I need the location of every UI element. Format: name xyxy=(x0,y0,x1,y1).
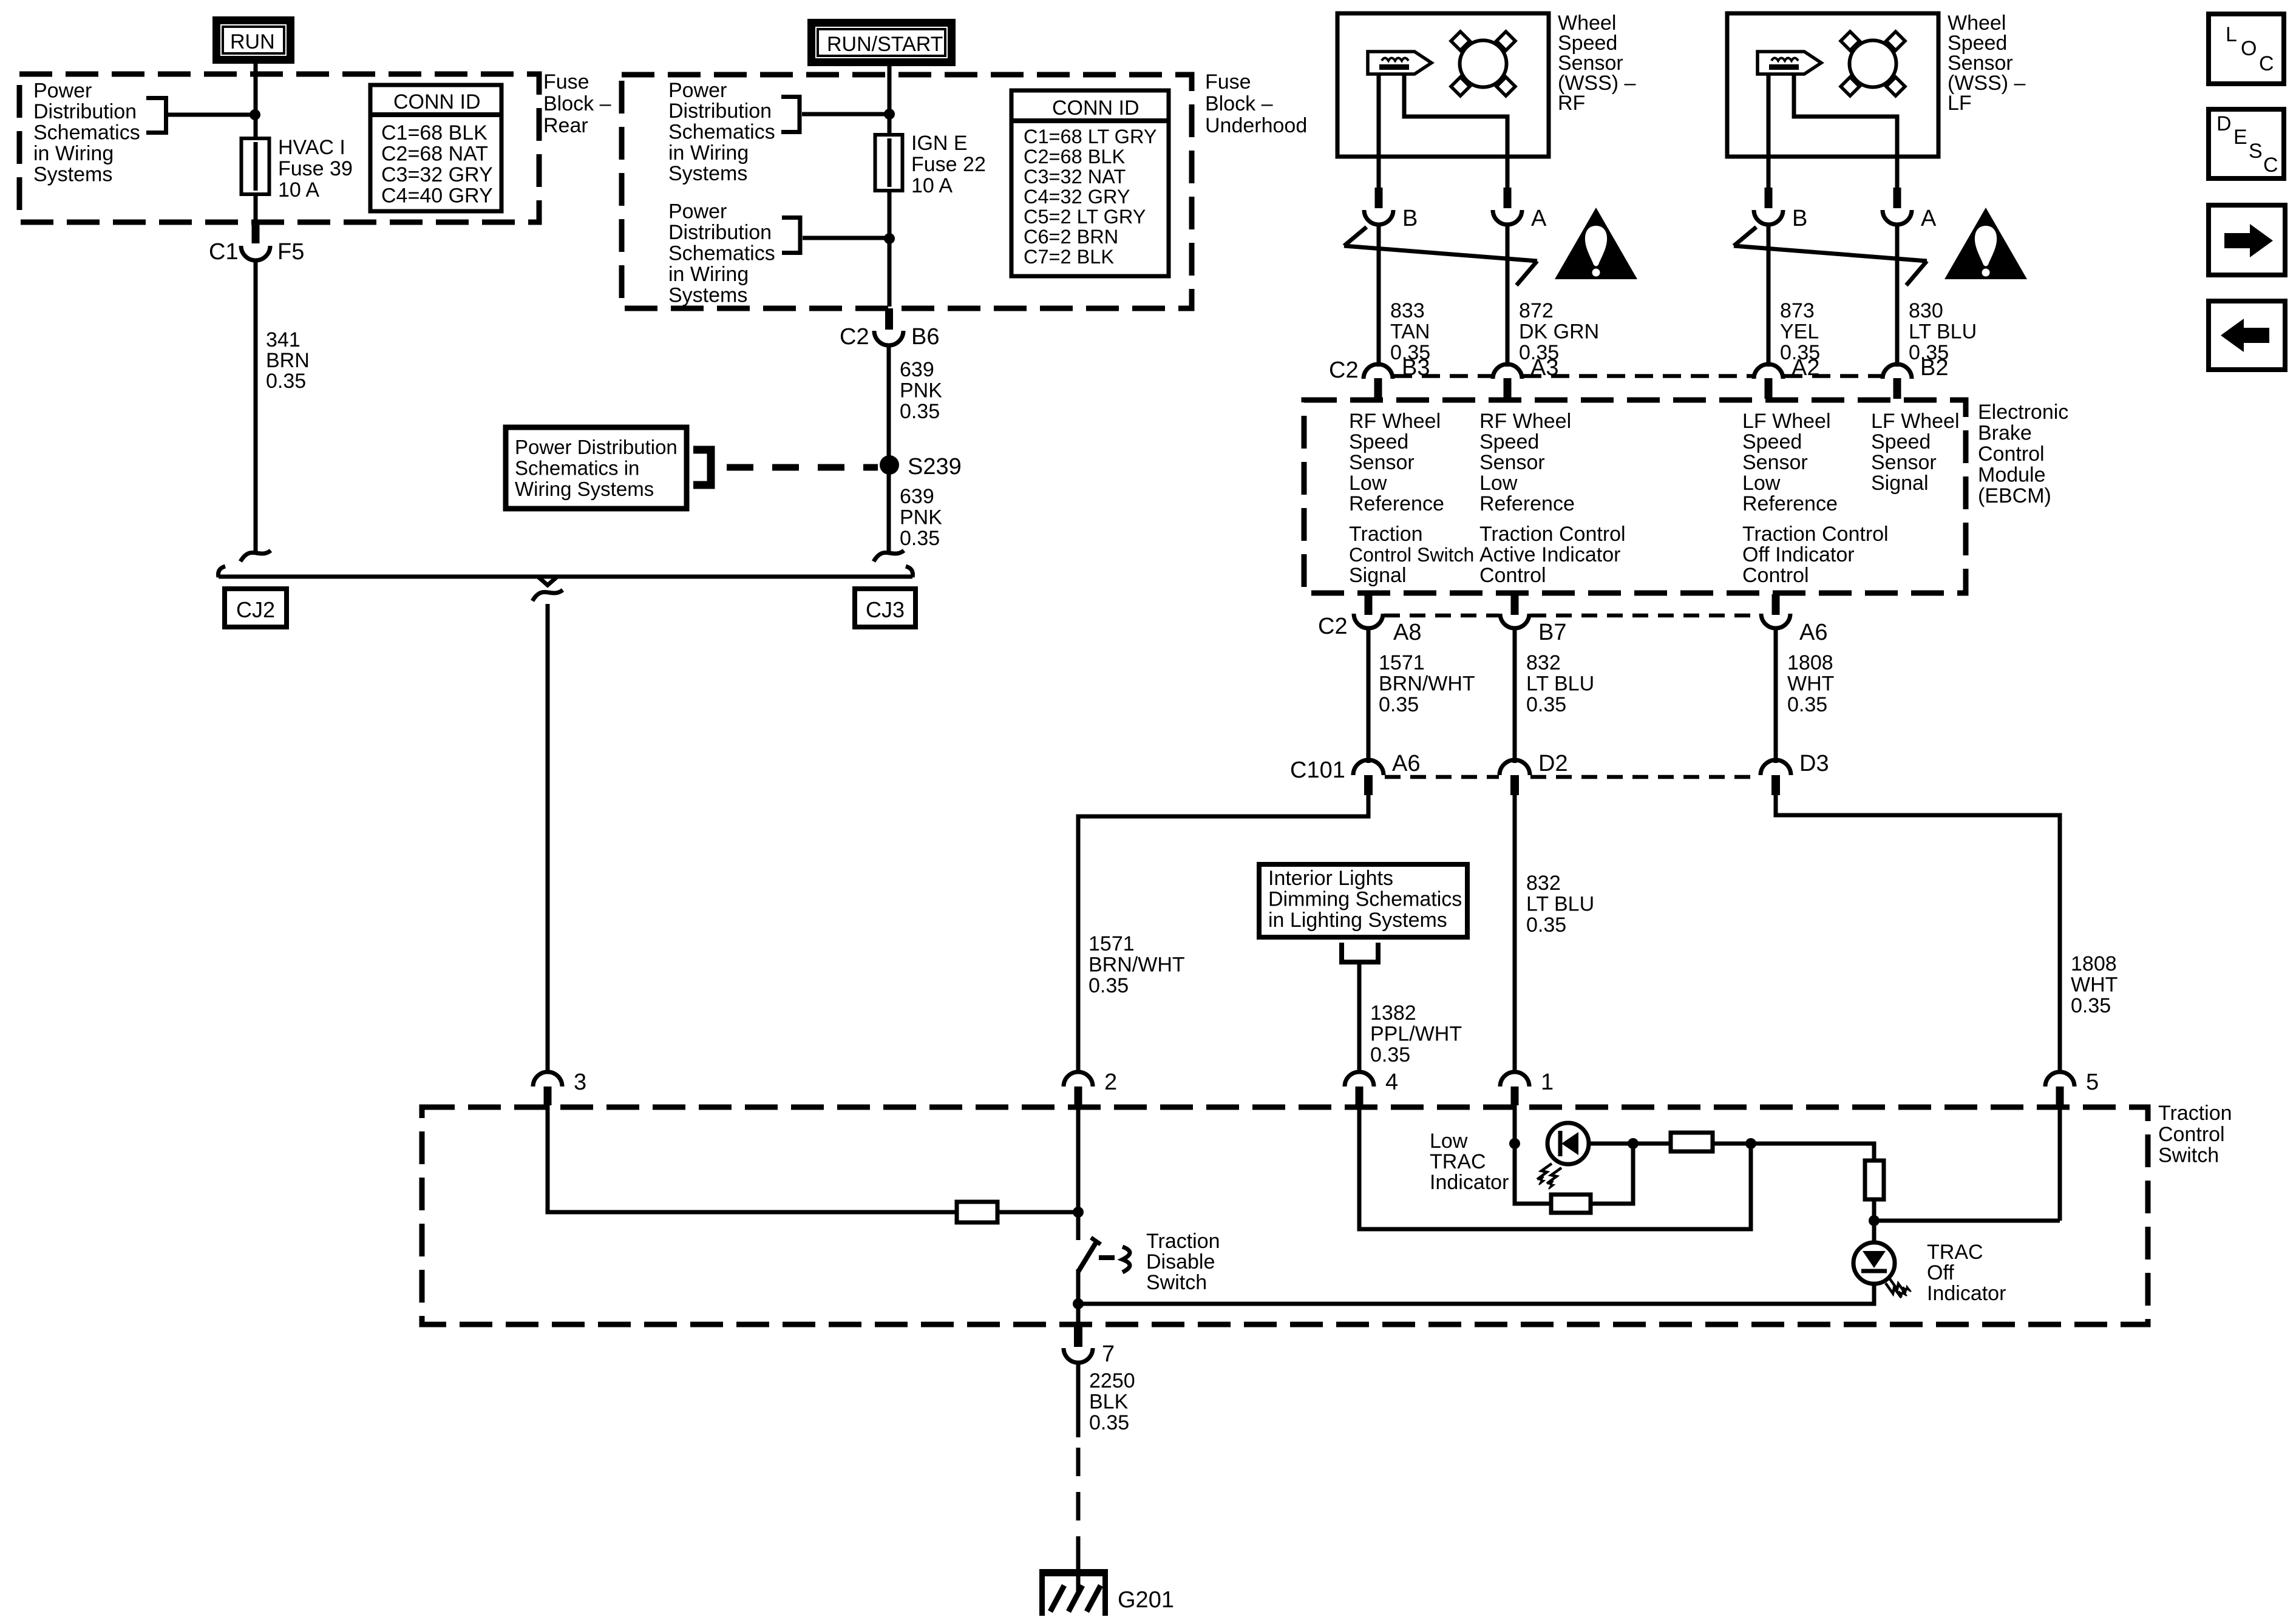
svg-text:B: B xyxy=(1792,206,1807,231)
label Fuse Block - Underhood xyxy=(1205,70,1307,137)
svg-text:0.35: 0.35 xyxy=(1379,693,1419,716)
svg-text:BLK: BLK xyxy=(1089,1391,1129,1414)
svg-text:Fuse 39: Fuse 39 xyxy=(278,157,353,180)
svg-text:C4=32 GRY: C4=32 GRY xyxy=(1024,186,1130,208)
dashed reference link to S239 xyxy=(727,464,878,471)
bracket below interior lights box xyxy=(1342,943,1378,962)
wire RF A down to EBCM xyxy=(1506,225,1510,367)
connector pin A (RF) xyxy=(1493,188,1547,231)
connector pin B2 (EBCM top) xyxy=(1883,355,1948,399)
svg-text:(EBCM): (EBCM) xyxy=(1978,484,2051,507)
svg-text:A3: A3 xyxy=(1530,355,1558,381)
wire D3 to switch pin 5 xyxy=(1776,795,2060,1073)
connector pin D2 (C101) xyxy=(1500,751,1568,795)
DESC nav box xyxy=(2209,109,2284,178)
fuse block underhood dashed box xyxy=(622,75,1192,308)
svg-text:CONN ID: CONN ID xyxy=(393,90,481,114)
svg-text:C1=68 LT GRY: C1=68 LT GRY xyxy=(1024,126,1157,147)
svg-text:BRN: BRN xyxy=(266,349,310,372)
warning triangle LF xyxy=(1944,208,2027,279)
svg-text:D3: D3 xyxy=(1799,751,1829,776)
junction box CJ3 xyxy=(855,589,915,627)
svg-text:CONN ID: CONN ID xyxy=(1052,97,1140,120)
svg-text:Sensor: Sensor xyxy=(1871,451,1937,474)
svg-text:0.35: 0.35 xyxy=(1526,914,1566,937)
wire resistor 3 to junction C xyxy=(1713,1142,1751,1146)
EBCM pin function text traction control switch signal (col1) xyxy=(1349,523,1474,587)
label Traction Disable Switch xyxy=(1146,1230,1220,1294)
wire W3 bus to switch pin 3 xyxy=(546,604,550,1073)
svg-text:E: E xyxy=(2233,126,2247,149)
EBCM pin function text traction control active indicator control (col2) xyxy=(1479,523,1626,587)
label Fuse Block - Rear xyxy=(543,70,611,137)
svg-text:RF Wheel: RF Wheel xyxy=(1479,410,1571,433)
svg-text:TRAC: TRAC xyxy=(1927,1241,1983,1264)
bracket power distribution 1 (underhood) xyxy=(781,97,800,132)
wire LF B down to EBCM xyxy=(1767,225,1771,367)
svg-text:Control: Control xyxy=(2158,1123,2225,1146)
vertical resistor trac off xyxy=(1865,1161,1884,1199)
svg-text:0.35: 0.35 xyxy=(900,400,940,423)
svg-text:Speed: Speed xyxy=(1871,430,1931,453)
resistor in indicator rail xyxy=(1671,1133,1713,1151)
wire LF B to connector xyxy=(1767,157,1771,189)
svg-text:Power: Power xyxy=(668,200,727,223)
connector pin A3 (EBCM top) xyxy=(1493,355,1558,399)
wire 2250 BLK 0.35 xyxy=(1078,1363,1135,1437)
wire 1382 PPL/WHT to pin 4 xyxy=(1357,962,1362,1073)
svg-text:Control: Control xyxy=(1742,564,1809,587)
svg-text:B2: B2 xyxy=(1920,355,1948,381)
connector pin A (LF) xyxy=(1883,188,1937,231)
svg-text:0.35: 0.35 xyxy=(1526,693,1566,716)
wire junction C to pin 4 leg xyxy=(1359,1105,1751,1229)
node junction 1 underhood xyxy=(884,109,895,120)
wire break symbol W1 xyxy=(240,551,271,561)
svg-text:LF Wheel: LF Wheel xyxy=(1871,410,1960,433)
svg-text:C2: C2 xyxy=(1329,358,1359,383)
svg-text:BRN/WHT: BRN/WHT xyxy=(1379,673,1475,696)
svg-text:0.35: 0.35 xyxy=(1089,974,1129,997)
connector pin 1 (switch) xyxy=(1500,1070,1554,1105)
svg-text:Speed: Speed xyxy=(1479,430,1539,453)
warning triangle RF xyxy=(1555,208,1637,279)
svg-text:Systems: Systems xyxy=(668,284,747,307)
text Power Distribution Schematics in Wiring Systems (underhood upper) xyxy=(668,79,775,185)
svg-text:A6: A6 xyxy=(1799,620,1827,645)
wire dashed to ground xyxy=(1076,1448,1081,1554)
svg-text:RF Wheel: RF Wheel xyxy=(1349,410,1441,433)
fuse block rear dashed box xyxy=(19,74,539,222)
svg-text:Speed: Speed xyxy=(1349,430,1408,453)
wire 341 BRN 0.35 xyxy=(254,260,258,551)
wire to ground symbol xyxy=(1076,1551,1081,1594)
wire RF A to connector xyxy=(1506,157,1510,189)
svg-text:Underhood: Underhood xyxy=(1205,114,1307,137)
svg-text:832: 832 xyxy=(1526,872,1561,895)
svg-text:C3=32 NAT: C3=32 NAT xyxy=(1024,166,1126,188)
connector C1 F5 xyxy=(209,222,304,265)
svg-text:C6=2 BRN: C6=2 BRN xyxy=(1024,226,1118,248)
EBCM pin function text RF wheel low reference (col1) xyxy=(1349,410,1444,515)
svg-text:Power: Power xyxy=(668,79,727,102)
LOC nav box xyxy=(2209,14,2284,84)
svg-text:C: C xyxy=(2259,52,2274,75)
svg-text:Reference: Reference xyxy=(1479,492,1575,515)
label Traction Control Switch xyxy=(2158,1102,2232,1167)
power feed box RUN xyxy=(212,16,294,64)
fuse HVAC I Fuse 39 10 A xyxy=(242,136,353,202)
connector pin A2 (EBCM top) xyxy=(1754,355,1819,399)
svg-text:A: A xyxy=(1531,206,1547,231)
wire label 872 DK GRN 0.35 xyxy=(1519,299,1599,364)
text Power Distribution Schematics in Wiring Systems (rear) xyxy=(33,80,140,186)
svg-text:Distribution: Distribution xyxy=(33,100,137,123)
wire D2 to switch pin 1 xyxy=(1513,795,1517,1073)
svg-text:Electronic: Electronic xyxy=(1978,401,2068,424)
wire label 830 LT BLU 0.35 xyxy=(1909,299,1977,364)
label Wheel Speed Sensor (WSS) - LF xyxy=(1948,12,2026,115)
svg-text:Traction: Traction xyxy=(1349,523,1423,546)
resistor in switch signal path xyxy=(957,1202,997,1222)
svg-text:Fuse: Fuse xyxy=(543,70,589,93)
node junction D xyxy=(1869,1215,1880,1226)
wire break torn symbol LF xyxy=(1734,227,1927,285)
junction box CJ2 xyxy=(225,589,287,627)
svg-text:C101: C101 xyxy=(1290,758,1345,783)
connector pin B (LF) xyxy=(1754,188,1807,231)
svg-text:1571: 1571 xyxy=(1089,932,1135,955)
svg-text:Power: Power xyxy=(33,80,92,103)
wire label 832 LT BLU lower xyxy=(1526,872,1594,937)
svg-text:0.35: 0.35 xyxy=(2071,994,2111,1017)
wire 639 PNK upper xyxy=(887,345,891,551)
svg-text:Low: Low xyxy=(1479,472,1518,495)
svg-text:Disable: Disable xyxy=(1146,1250,1215,1273)
svg-text:YEL: YEL xyxy=(1780,320,1819,344)
svg-text:Indicator: Indicator xyxy=(1430,1171,1509,1194)
right arrow nav box xyxy=(2209,205,2285,275)
svg-text:C5=2 LT GRY: C5=2 LT GRY xyxy=(1024,206,1146,228)
wheel speed sensor LF box xyxy=(1727,13,1938,157)
EBCM dashed box xyxy=(1304,400,1966,593)
wire RUN/START to fuse 22 xyxy=(888,66,892,137)
bracket for power distribution box at S239 xyxy=(693,450,711,485)
svg-text:Distribution: Distribution xyxy=(668,221,772,244)
power distribution schematics box (solid) xyxy=(506,427,687,509)
svg-text:C2=68 NAT: C2=68 NAT xyxy=(381,143,488,166)
svg-text:Schematics: Schematics xyxy=(668,242,775,265)
wire label 1571 BRN/WHT lower xyxy=(1089,932,1185,997)
power feed box RUN/START xyxy=(807,19,956,66)
left arrow nav box xyxy=(2209,301,2285,370)
EBCM pin function text LF wheel low reference (col3) xyxy=(1742,410,1838,515)
wire junction B to resistor 3 xyxy=(1633,1142,1671,1146)
WSS RF internal wires xyxy=(1377,74,1381,157)
wire LF A down to EBCM xyxy=(1895,225,1900,367)
svg-text:O: O xyxy=(2241,37,2257,60)
svg-text:C1: C1 xyxy=(209,239,239,265)
svg-text:LT BLU: LT BLU xyxy=(1526,673,1594,696)
LED trac off indicator xyxy=(1853,1242,1911,1298)
interior lights dimming box xyxy=(1259,864,1467,937)
svg-text:Traction Control: Traction Control xyxy=(1742,523,1889,546)
connector row line EBCM top xyxy=(1394,374,1881,378)
svg-text:CJ2: CJ2 xyxy=(236,597,275,622)
svg-text:PPL/WHT: PPL/WHT xyxy=(1370,1023,1462,1046)
WSS LF tone ring icon xyxy=(1841,32,1905,96)
wire branch 1 to bracket xyxy=(802,112,888,117)
svg-text:5: 5 xyxy=(2086,1070,2099,1095)
wire 1808 WHT upper xyxy=(1774,627,1778,763)
connector C101 A6 xyxy=(1290,751,1420,795)
svg-text:Dimming Schematics: Dimming Schematics xyxy=(1268,888,1462,911)
svg-text:4: 4 xyxy=(1385,1070,1398,1095)
svg-text:LT BLU: LT BLU xyxy=(1909,320,1977,344)
svg-text:IGN E: IGN E xyxy=(911,132,968,155)
svg-text:A8: A8 xyxy=(1393,620,1421,645)
svg-text:Interior Lights: Interior Lights xyxy=(1268,867,1393,890)
svg-text:C: C xyxy=(2263,154,2278,177)
wire resistor to junction xyxy=(997,1210,1078,1215)
connector pin 2 (switch) xyxy=(1064,1070,1117,1105)
svg-text:A: A xyxy=(1921,206,1937,231)
switch actuator dashed link xyxy=(1099,1255,1116,1260)
svg-text:LF Wheel: LF Wheel xyxy=(1742,410,1831,433)
svg-text:C7=2 BLK: C7=2 BLK xyxy=(1024,246,1114,268)
svg-text:RUN: RUN xyxy=(230,30,275,53)
connector pin 3 (switch) xyxy=(533,1070,586,1105)
wire A6 to switch pin 2 xyxy=(1078,795,1368,1073)
wire RUN to fuse 39 xyxy=(254,64,258,140)
svg-text:Block –: Block – xyxy=(1205,92,1273,115)
CONN ID table (underhood) xyxy=(1011,90,1169,276)
WSS LF internal wires xyxy=(1767,74,1771,157)
svg-text:639: 639 xyxy=(900,485,934,508)
label Wheel Speed Sensor (WSS) - RF xyxy=(1558,12,1636,115)
svg-text:Switch: Switch xyxy=(1146,1271,1207,1294)
svg-text:Distribution: Distribution xyxy=(668,100,772,123)
svg-text:Systems: Systems xyxy=(33,163,112,186)
svg-text:Fuse 22: Fuse 22 xyxy=(911,153,986,176)
svg-text:Module: Module xyxy=(1978,464,2046,487)
svg-text:WHT: WHT xyxy=(2071,974,2118,997)
node junction 2 underhood xyxy=(884,233,895,244)
wire label 833 TAN 0.35 xyxy=(1390,299,1430,364)
wire fuse39 to connector C1 xyxy=(254,194,258,223)
traction control switch dashed box xyxy=(422,1107,2148,1324)
label Low TRAC Indicator xyxy=(1430,1130,1509,1194)
svg-text:2250: 2250 xyxy=(1089,1369,1135,1392)
svg-text:S: S xyxy=(2249,140,2263,163)
wire label 1808 WHT lower xyxy=(2071,952,2118,1017)
wire trac off LED to ground junction xyxy=(1078,1284,1874,1304)
bus brace CJ2/CJ3 xyxy=(218,566,912,585)
bracket power distribution 2 (underhood) xyxy=(782,218,800,253)
svg-text:RF: RF xyxy=(1558,92,1585,115)
svg-text:C2: C2 xyxy=(840,324,869,350)
svg-text:Speed: Speed xyxy=(1742,430,1802,453)
svg-text:DK GRN: DK GRN xyxy=(1519,320,1599,344)
svg-text:in Wiring: in Wiring xyxy=(668,141,749,164)
svg-text:1808: 1808 xyxy=(1787,651,1833,674)
svg-text:Off Indicator: Off Indicator xyxy=(1742,543,1855,566)
svg-text:341: 341 xyxy=(266,328,301,351)
wire 832 LT BLU upper xyxy=(1513,627,1517,763)
svg-text:WHT: WHT xyxy=(1787,673,1834,696)
CONN ID table (rear) xyxy=(370,85,501,211)
svg-text:Schematics: Schematics xyxy=(668,121,775,144)
wire pin 2 internal drop xyxy=(1076,1105,1081,1240)
wire LED to junction B xyxy=(1589,1142,1633,1146)
svg-text:Signal: Signal xyxy=(1871,472,1929,495)
svg-text:Schematics in: Schematics in xyxy=(515,457,639,480)
wire blade to bottom junction xyxy=(1076,1269,1081,1324)
label TRAC Off Indicator xyxy=(1927,1241,2006,1305)
svg-text:Control: Control xyxy=(1479,564,1546,587)
label Electronic Brake Control Module (EBCM) xyxy=(1978,401,2068,507)
fuse IGN E Fuse 22 10 A xyxy=(875,132,986,197)
svg-text:0.35: 0.35 xyxy=(1089,1411,1129,1434)
wire branch to power distribution bracket xyxy=(168,113,254,117)
svg-text:1382: 1382 xyxy=(1370,1002,1416,1025)
WSS LF probe icon xyxy=(1758,52,1821,74)
svg-text:Brake: Brake xyxy=(1978,422,2032,445)
wire break below bus xyxy=(532,590,563,601)
svg-text:639: 639 xyxy=(900,358,934,381)
svg-text:Sensor: Sensor xyxy=(1349,451,1415,474)
connector pin D3 (C101) xyxy=(1761,751,1829,795)
connector C2 B6 xyxy=(840,308,939,350)
connector pin 7 (switch bottom) xyxy=(1064,1326,1115,1367)
wire branch 2 to bracket xyxy=(803,236,888,240)
svg-text:Traction: Traction xyxy=(2158,1102,2232,1125)
node junction pin2/resistor xyxy=(1073,1207,1084,1218)
svg-text:B: B xyxy=(1402,206,1418,231)
svg-text:LF: LF xyxy=(1948,92,1972,115)
connector pin A6 (EBCM bottom) xyxy=(1761,594,1827,645)
svg-text:Signal: Signal xyxy=(1349,564,1407,587)
svg-text:TRAC: TRAC xyxy=(1430,1150,1486,1173)
svg-text:F5: F5 xyxy=(277,239,304,265)
svg-text:Off: Off xyxy=(1927,1261,1954,1284)
node junction C xyxy=(1745,1138,1756,1149)
wire break symbol W2 xyxy=(874,551,904,561)
node junction A low trac xyxy=(1509,1138,1520,1149)
svg-text:LT BLU: LT BLU xyxy=(1526,893,1594,916)
svg-text:B7: B7 xyxy=(1538,620,1566,645)
svg-text:Sensor: Sensor xyxy=(1479,451,1545,474)
svg-text:A6: A6 xyxy=(1392,751,1420,776)
svg-text:Traction: Traction xyxy=(1146,1230,1220,1253)
connector pin B (RF) xyxy=(1364,188,1418,231)
svg-text:D: D xyxy=(2216,112,2232,135)
svg-text:Control: Control xyxy=(1978,442,2045,466)
svg-text:0.35: 0.35 xyxy=(1787,693,1827,716)
svg-text:PNK: PNK xyxy=(900,506,942,529)
svg-text:Switch: Switch xyxy=(2158,1144,2219,1167)
wire LF A to connector xyxy=(1895,157,1900,189)
svg-text:Reference: Reference xyxy=(1349,492,1444,515)
svg-text:1571: 1571 xyxy=(1379,651,1425,674)
svg-text:832: 832 xyxy=(1526,651,1561,674)
svg-text:Active Indicator: Active Indicator xyxy=(1479,543,1620,566)
text Power Distribution Schematics in Wiring Systems (underhood lower) xyxy=(668,200,775,307)
svg-text:B6: B6 xyxy=(911,324,939,350)
wire break torn symbol RF xyxy=(1344,227,1537,285)
connector pin B7 (EBCM bottom) xyxy=(1500,594,1566,645)
svg-text:830: 830 xyxy=(1909,299,1943,322)
svg-text:Wiring Systems: Wiring Systems xyxy=(515,478,654,500)
svg-text:10 A: 10 A xyxy=(911,174,953,197)
svg-text:Low: Low xyxy=(1742,472,1781,495)
svg-text:C2=68 BLK: C2=68 BLK xyxy=(1024,146,1125,168)
svg-text:Low: Low xyxy=(1430,1130,1468,1153)
connector C2 B3 (EBCM top) xyxy=(1329,355,1430,399)
svg-text:Schematics: Schematics xyxy=(33,121,140,144)
svg-text:7: 7 xyxy=(1102,1341,1115,1367)
svg-text:Rear: Rear xyxy=(543,114,588,137)
svg-text:C1=68 BLK: C1=68 BLK xyxy=(381,121,487,144)
svg-text:Power Distribution: Power Distribution xyxy=(515,436,678,458)
svg-text:C4=40 GRY: C4=40 GRY xyxy=(381,185,493,208)
svg-text:Sensor: Sensor xyxy=(1742,451,1808,474)
bracket for power distribution reference (rear) xyxy=(146,98,166,133)
svg-text:CJ3: CJ3 xyxy=(866,597,905,622)
svg-text:D2: D2 xyxy=(1538,751,1568,776)
wheel speed sensor RF box xyxy=(1337,13,1549,157)
WSS RF tone ring icon xyxy=(1451,32,1515,96)
svg-text:872: 872 xyxy=(1519,299,1554,322)
svg-text:Fuse: Fuse xyxy=(1205,70,1251,93)
svg-text:S239: S239 xyxy=(908,454,962,480)
svg-text:Indicator: Indicator xyxy=(1927,1282,2006,1305)
wire RF B to connector xyxy=(1377,157,1381,189)
wire rail junction C to vertical resistor xyxy=(1751,1144,1874,1161)
node junction B low trac xyxy=(1628,1138,1639,1149)
svg-text:Control Switch: Control Switch xyxy=(1349,544,1474,566)
wire 1571 BRN/WHT upper xyxy=(1367,627,1371,763)
svg-text:C2: C2 xyxy=(1318,614,1348,639)
wire label 873 YEL 0.35 xyxy=(1780,299,1820,364)
wire 832 pin 1 internal drop xyxy=(1513,1105,1517,1144)
wire junction D to pin 5 xyxy=(1874,1219,2060,1223)
svg-text:HVAC I: HVAC I xyxy=(278,136,345,159)
svg-text:0.35: 0.35 xyxy=(900,527,940,550)
EBCM pin function text traction control off indicator control (col3) xyxy=(1742,523,1889,587)
traction disable switch blade xyxy=(1078,1238,1101,1272)
svg-text:C3=32 GRY: C3=32 GRY xyxy=(381,163,493,186)
connector row line C101 xyxy=(1385,775,1760,779)
svg-text:Traction Control: Traction Control xyxy=(1479,523,1626,546)
connector pin 5 (switch) xyxy=(2045,1070,2099,1105)
WSS RF probe icon xyxy=(1368,52,1432,74)
svg-text:in Lighting Systems: in Lighting Systems xyxy=(1268,909,1447,932)
svg-text:0.35: 0.35 xyxy=(266,370,306,393)
wire pin 3 internal drop xyxy=(548,1105,957,1212)
svg-text:TAN: TAN xyxy=(1390,320,1430,344)
svg-text:873: 873 xyxy=(1780,299,1815,322)
switch actuator detent symbol xyxy=(1123,1247,1130,1272)
svg-text:RUN/START: RUN/START xyxy=(827,33,943,56)
svg-text:PNK: PNK xyxy=(900,379,942,402)
node junction ground side xyxy=(1073,1298,1084,1309)
svg-text:Reference: Reference xyxy=(1742,492,1838,515)
svg-text:3: 3 xyxy=(574,1070,586,1095)
connector C2 A8 (EBCM bottom) xyxy=(1318,594,1421,645)
svg-text:Low: Low xyxy=(1349,472,1387,495)
bypass resistor loop low trac xyxy=(1515,1144,1633,1213)
